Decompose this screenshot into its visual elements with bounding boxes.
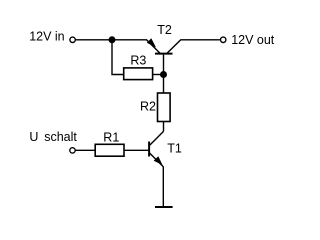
wire base node to R2 [163, 75, 165, 94]
emitter arrow (NPN, points away from base) [154, 156, 163, 165]
emitter diagonal [147, 40, 161, 54]
base bar [155, 53, 173, 55]
svg-text:R3: R3 [130, 53, 146, 67]
wire U schalt to R1 [76, 149, 96, 151]
svg-text:R1: R1 [103, 130, 119, 144]
emitter diagonal [149, 153, 163, 167]
resistor R3 [124, 68, 153, 80]
svg-text:12V in: 12V in [29, 30, 64, 44]
svg-text:T2: T2 [157, 23, 172, 37]
resistor R1 [95, 144, 124, 156]
transistor T2 (PNP) [147, 38, 181, 74]
svg-text:T1: T1 [167, 142, 182, 156]
collector diagonal [149, 131, 163, 145]
wire T1 emitter to ground [162, 167, 164, 208]
svg-text:R2: R2 [140, 100, 156, 114]
wire R3 to base node [153, 74, 164, 76]
svg-text:12V out: 12V out [231, 33, 275, 47]
base bar [148, 142, 150, 157]
collector diagonal [167, 40, 181, 54]
wire T2 collector to 12V out [181, 39, 220, 41]
terminal 12V in [70, 37, 75, 42]
wire R1 to T1 base [124, 149, 148, 151]
wire R2 to T1 collector [163, 122, 165, 132]
wire junction down to R3 [112, 40, 124, 75]
emitter arrow (PNP, points to base) [147, 38, 156, 47]
svg-text:schalt: schalt [44, 130, 77, 144]
ground [155, 206, 173, 208]
svg-text:U: U [29, 130, 38, 144]
terminal 12V out [221, 37, 226, 42]
terminal U schalt [70, 148, 75, 153]
node junction T2 base / R3 / R2 [160, 71, 167, 78]
node junction at 12V in rail [109, 36, 116, 43]
base lead down [163, 54, 165, 75]
wire 12V in to T2 emitter [76, 39, 147, 41]
resistor R2 [158, 93, 171, 122]
transistor T1 (NPN) [149, 131, 163, 166]
